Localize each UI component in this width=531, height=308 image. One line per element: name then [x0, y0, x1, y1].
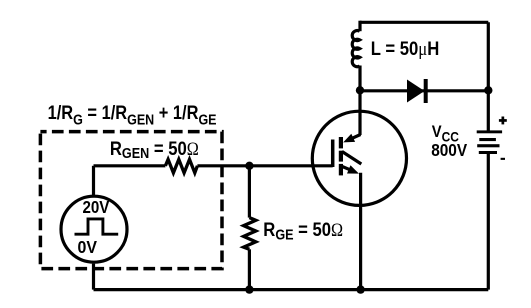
- svg-text:800V: 800V: [431, 141, 467, 160]
- svg-text:1/RG = 1/RGEN + 1/RGE: 1/RG = 1/RGEN + 1/RGE: [48, 102, 217, 128]
- wire generator bottom lead: [92, 264, 95, 290]
- wire battery bottom lead: [487, 154, 490, 290]
- battery B1 plate short 2: [479, 138, 496, 141]
- IGBT emitter arrow shaft: [342, 166, 352, 170]
- wire bottom rail: [94, 288, 489, 291]
- wire RGE top lead: [248, 166, 251, 218]
- inductor L1 coil: [352, 31, 359, 67]
- battery B1 plate short 4: [479, 151, 497, 154]
- battery B1 plate long 1: [477, 130, 502, 133]
- battery minus sign: [501, 158, 505, 160]
- junction dot gate node: [245, 162, 253, 170]
- junction dot diode-battery node: [484, 86, 492, 94]
- label formula 1/RG = 1/RGEN + 1/RGE: [48, 102, 217, 128]
- label RGEN = 50ohm: [110, 138, 199, 161]
- pulse waveform symbol: [75, 219, 119, 234]
- IGBT gate bar: [331, 140, 335, 168]
- wire inductor top stub: [358, 21, 361, 32]
- wire collector lead: [358, 90, 361, 135]
- resistor RGEN zigzag: [165, 159, 197, 173]
- source V1 pulse generator circle: [61, 196, 127, 262]
- svg-text:RGEN = 50Ω: RGEN = 50Ω: [110, 138, 199, 161]
- svg-text:RGE = 50Ω: RGE = 50Ω: [263, 219, 343, 243]
- resistor RGE zigzag: [244, 218, 256, 250]
- wire inductor bottom stub: [358, 66, 361, 91]
- svg-text:20V: 20V: [83, 198, 110, 217]
- junction dot bottom emitter node: [356, 285, 364, 293]
- label 0V: [78, 237, 98, 257]
- IGBT emitter diagonal: [342, 152, 361, 165]
- wire gate net: [197, 164, 332, 167]
- wire generator-to-resistor segment: [94, 164, 166, 167]
- wire top rail: [360, 21, 488, 24]
- label 20V: [83, 198, 110, 217]
- wire right rail upper: [487, 22, 490, 130]
- junction dot bottom RGE node: [245, 285, 253, 293]
- battery B1 plate long 3: [477, 144, 499, 147]
- wire diode net: [360, 89, 488, 92]
- IGBT channel bar segments: [339, 137, 343, 148]
- IGBT emitter arrowhead: [347, 165, 359, 173]
- battery plus sign: [499, 119, 507, 122]
- transistor Q1 IGBT circle: [312, 111, 406, 205]
- label 800V: [431, 141, 467, 160]
- label RGE = 50ohm: [263, 219, 343, 243]
- IGBT collector arrowhead: [343, 134, 355, 143]
- junction dot collector node: [356, 86, 364, 94]
- label VCC: [432, 123, 459, 144]
- svg-text:L = 50μH: L = 50μH: [371, 38, 439, 59]
- diode D1 cathode bar: [424, 79, 428, 103]
- svg-text:0V: 0V: [78, 237, 98, 257]
- IGBT collector diagonal: [349, 135, 361, 140]
- dashed box around generator network: [40, 132, 222, 269]
- wire generator top lead: [92, 166, 95, 195]
- wire RGE bottom lead: [248, 249, 251, 289]
- diode D1 triangle: [407, 80, 425, 103]
- wire emitter lead: [359, 173, 362, 290]
- label L = 50uH: [371, 38, 439, 59]
